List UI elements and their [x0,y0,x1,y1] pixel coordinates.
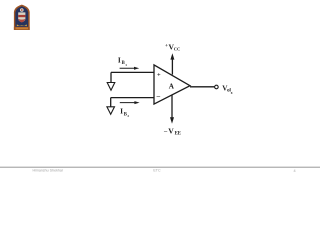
svg-text:I: I [118,55,121,64]
svg-text:–: – [156,92,161,100]
svg-text:2: 2 [127,114,129,118]
svg-text:g: g [231,90,233,94]
svg-text:EE: EE [175,132,181,137]
svg-text:A: A [169,82,175,90]
svg-text:CC: CC [174,47,180,52]
svg-text:+: + [157,72,161,79]
svg-text:1: 1 [125,63,127,67]
svg-text:4: 4 [293,169,295,173]
svg-text:I: I [120,107,123,116]
svg-text:Himanshu Shekhar: Himanshu Shekhar [33,168,64,172]
svg-text:V: V [168,126,174,135]
svg-text:ETC: ETC [153,169,161,173]
